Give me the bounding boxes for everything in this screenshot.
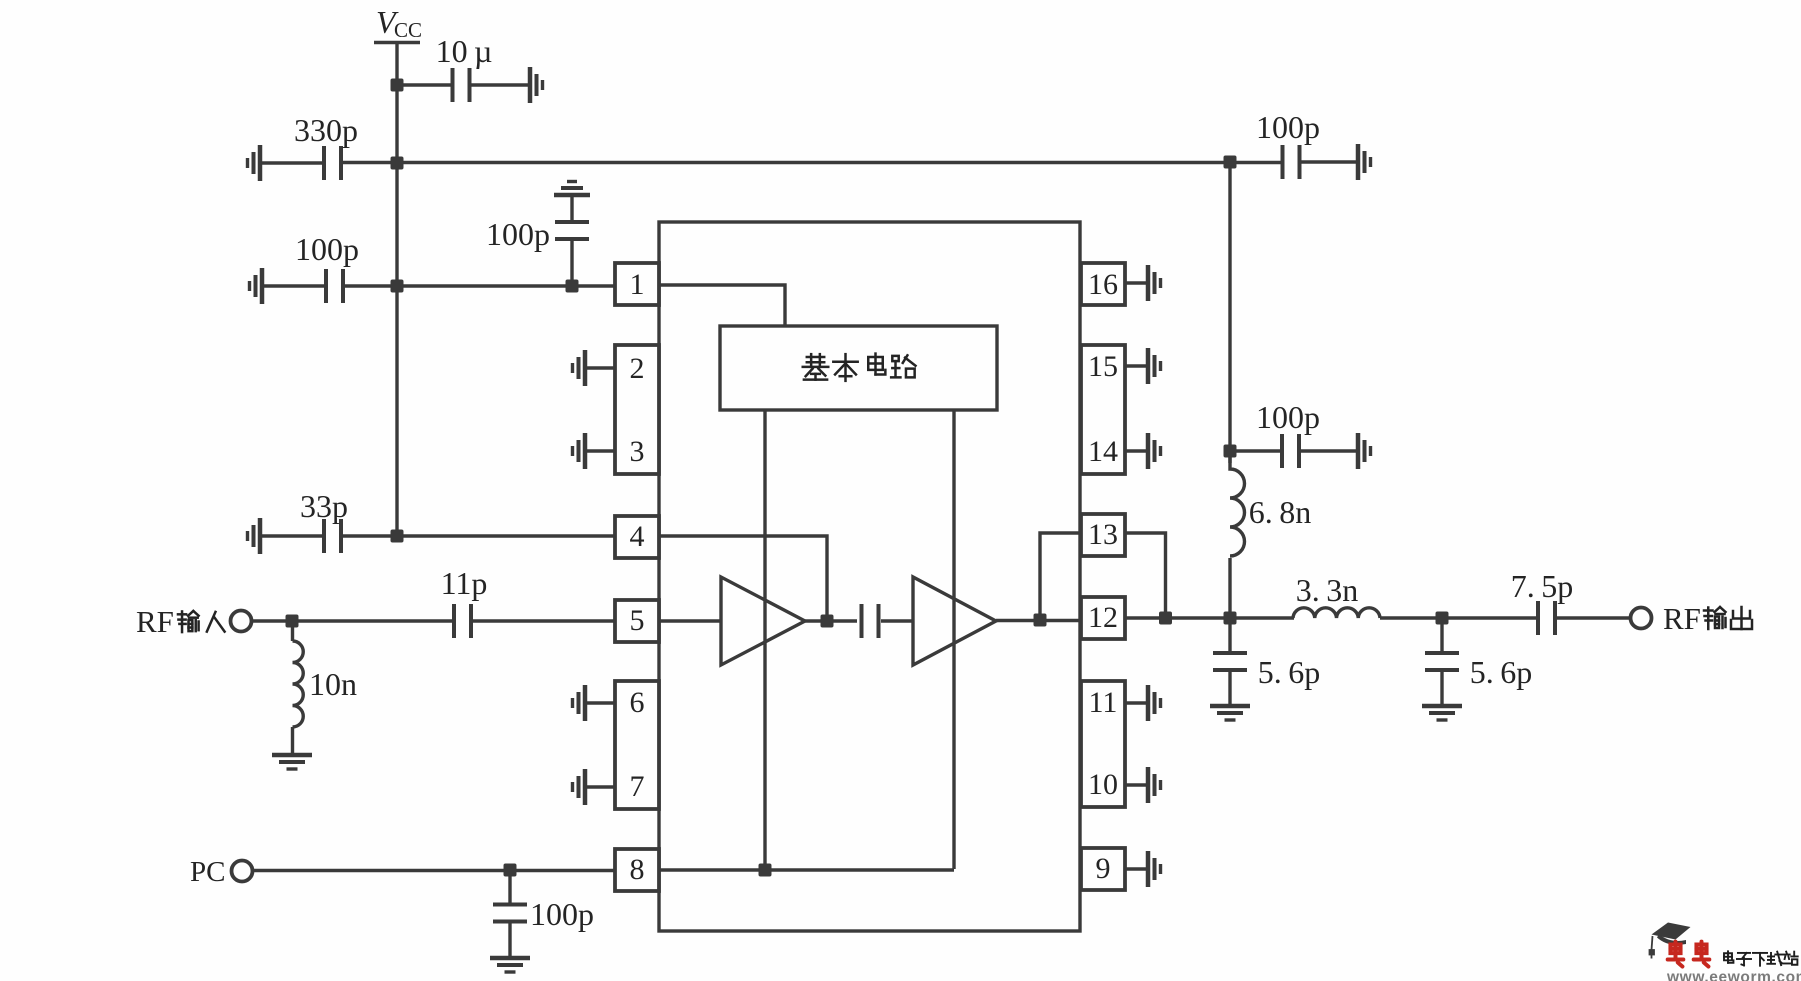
svg-text:11: 11 [1089,686,1118,719]
capacitor 100p row2 [324,269,345,303]
svg-text:10: 10 [1088,768,1118,801]
wire pin 13 jog to pin 12 net [1125,533,1166,618]
wire pin 9 to ground [1125,867,1147,870]
wire ground to pin 3 [585,449,616,452]
capacitor 100p mid right [1280,434,1301,468]
node 100p/VCC junction [391,280,404,293]
watermark site name characters [1724,951,1798,965]
svg-text:1: 1 [630,268,645,301]
wire C 100p vertical to ground [570,196,573,220]
node pin8/left leg junction [759,864,772,877]
wire basic circuit right leg [952,410,955,869]
svg-text:15: 15 [1088,350,1118,383]
wire C 11p to pin 5 [473,619,616,622]
capacitor 11p [452,604,473,638]
pin 6-7 box [615,681,659,809]
wire vertical rail x1230 [1228,162,1231,463]
wire 33p to pin 4 [343,534,616,537]
pin 15-14 box [1081,345,1125,474]
svg-text:RF: RF [1663,601,1701,636]
wire C 100p bottom to ground [508,923,511,956]
wire junction to C 100p vertical [570,241,573,286]
pin 1 box [615,263,659,305]
node 330p net / 100p top right junction [1224,156,1237,169]
wire pin 12 output row [1125,616,1294,619]
svg-text:330p: 330p [294,112,358,148]
node rail / 100p mid junction [1224,445,1237,458]
wire pin 10 to ground [1125,783,1147,786]
ground left of pin 6 [573,685,586,721]
capacitor 5.6p second [1425,651,1459,672]
capacitor 330p [322,146,343,180]
node pin1 bypass junction [566,280,579,293]
svg-text:16: 16 [1088,268,1118,301]
svg-text:12: 12 [1088,601,1118,634]
wire C 7.5p to RF output [1557,616,1630,619]
wire C 5.6p second to ground [1440,672,1443,704]
wire ground to pin 7 [585,785,616,788]
watermark graduation cap brim [1657,934,1686,945]
svg-text:13: 13 [1088,518,1118,551]
capacitor 100p top right [1281,145,1302,179]
pin 8 box [615,849,659,891]
node amp1 output / pin 4 junction [821,615,834,628]
svg-text:100p: 100p [295,231,359,267]
svg-text:RF: RF [136,604,174,639]
svg-text:6. 8n: 6. 8n [1249,494,1311,530]
wire 100p mid to ground [1301,449,1356,452]
ground right of pin 14 [1148,433,1161,469]
pin 16 box [1081,263,1125,305]
wire 6.8n to pin12 node [1228,558,1231,618]
svg-text:7. 5p: 7. 5p [1511,568,1573,604]
wire junction down to L 10n [291,621,294,641]
wire RF input to C 11p [251,619,452,622]
node RF input / 10n junction [286,615,299,628]
capacitor coupling between amps [860,604,881,638]
svg-text:3: 3 [630,435,645,468]
svg-text:11p: 11p [441,565,488,601]
label RF input [136,604,225,639]
ground left of pin 7 [573,769,586,805]
svg-text:100p: 100p [1256,109,1320,145]
power VCC bar [374,41,420,44]
wire ground to C 33p [260,534,322,537]
ground right of 100p mid [1358,433,1371,469]
terminal RF output [1631,608,1652,629]
ground right of pin 10 [1148,767,1161,803]
svg-text:33p: 33p [300,488,348,524]
watermark chongchong red characters [1668,942,1710,967]
node VCC/10u junction [391,79,404,92]
wire pin 15 to ground [1125,364,1147,367]
ground left of pin 2 [573,350,586,386]
pin 5 box [615,600,659,642]
capacitor 10u [451,68,472,102]
op-amp A1 triangle [721,577,805,665]
ground below 5.6p second [1422,706,1462,720]
wire 3.3n to C 7.5p [1380,616,1536,619]
svg-text:4: 4 [630,520,645,553]
wire pin 4 into IC [659,536,827,621]
node 33p/VCC junction [391,530,404,543]
wire pin 5 to amp 1 [659,619,720,622]
inductor 3.3n [1293,608,1380,618]
wire VCC vertical rail x397 [395,42,398,536]
capacitor 100p bottom [493,903,527,924]
wire pin 14 to ground [1125,449,1147,452]
wire junction down to C 100p bottom [508,870,511,904]
label RF output [1663,601,1752,636]
wire ground to pin 6 [585,701,616,704]
wire amp 1 output [805,619,857,622]
wire VCC to C 10u [397,83,451,86]
svg-text:100p: 100p [1256,399,1320,435]
svg-text:www.eeworm.com: www.eeworm.com [1666,969,1801,981]
node amp2 output junction [1034,614,1047,627]
ground right of pin 16 [1148,265,1161,301]
svg-text:14: 14 [1088,435,1118,468]
svg-text:8: 8 [630,853,645,886]
wire pin 11 to ground [1125,701,1147,704]
node PC / 100p junction [504,864,517,877]
ground right of 10u [530,67,543,103]
svg-text:10n: 10n [309,666,357,702]
wire junction to C 100p mid [1230,449,1280,452]
wire PC to pin 8 [252,869,616,872]
node 330p/VCC junction [391,157,404,170]
ground below 10n [272,755,312,769]
wire coupling cap to amp 2 [881,619,912,622]
svg-text:2: 2 [630,352,645,385]
ground below 5.6p first [1210,706,1250,720]
op-amp IC U1 outline [659,222,1080,931]
wire pin 8 into IC [659,868,954,871]
wire 100p row2 to pin 1 [345,284,616,287]
wire 330p net long top wire to right 100p [343,161,1281,164]
wire amp 2 output to pin 12 [996,619,1081,622]
terminal PC [232,861,253,882]
wire basic circuit left leg [763,410,766,870]
wire C 10u to ground [471,83,528,86]
ground right of pin 9 [1148,851,1161,887]
pin 13 box [1081,514,1125,556]
pin 4 box [615,516,659,558]
pin 12 box [1081,597,1125,639]
ground left of pin 3 [573,433,586,469]
capacitor 100p vertical at pin1 [555,220,589,241]
capacitor 7.5p [1536,601,1557,635]
svg-text:PC: PC [190,856,225,888]
wire 100p top right to ground [1301,160,1356,163]
block basic circuit box [720,326,997,410]
svg-text:9: 9 [1096,852,1111,885]
svg-text:5: 5 [630,604,645,637]
wire junction down to C 5.6p first [1228,618,1231,653]
power VCC label [376,4,422,42]
inductor 10n [293,641,304,727]
pin 9 box [1081,848,1125,890]
ground above 100p vertical [554,182,590,196]
ground below 100p bottom [490,958,530,972]
label basic circuit (Chinese) [803,354,916,381]
svg-text:5. 6p: 5. 6p [1258,654,1320,690]
capacitor 33p [322,519,343,553]
watermark graduation cap board [1652,923,1691,940]
inductor 6.8n [1230,451,1245,556]
svg-text:5. 6p: 5. 6p [1470,654,1532,690]
svg-text:100p: 100p [486,216,550,252]
wire junction up to pin 13 inside IC [1040,533,1081,620]
node 6.8n / 5.6p junction [1224,612,1237,625]
wire ground to C 100p row2 [262,284,324,287]
svg-text:10 µ: 10 µ [436,33,493,69]
op-amp A2 triangle [913,577,996,665]
svg-text:CC: CC [394,18,422,42]
svg-text:3. 3n: 3. 3n [1296,572,1358,608]
wire ground to C 330p [260,161,322,164]
wire C 5.6p first to ground [1228,672,1231,704]
ground left of 330p [248,145,261,181]
ground left of 33p [248,518,261,554]
svg-text:7: 7 [630,770,645,803]
wire ground to pin 2 [585,366,616,369]
ground left of 100p row2 [250,268,263,304]
capacitor 5.6p first [1213,651,1247,672]
wire pin 1 into IC [659,285,785,327]
node 5.6p second junction [1436,612,1449,625]
watermark cap tassel [1650,936,1655,959]
pin 11-10 box [1081,681,1125,807]
wire junction down to C 5.6p second [1440,618,1443,653]
ground right of pin 11 [1148,685,1161,721]
ground right of pin 15 [1148,348,1161,384]
wire L 10n to ground [291,727,294,753]
terminal RF input [231,611,252,632]
pin 2-3 box [615,345,659,474]
node pin13 jog junction [1159,612,1172,625]
svg-text:100p: 100p [530,896,594,932]
ground right of 100p top [1358,144,1371,180]
svg-text:6: 6 [630,686,645,719]
wire pin 16 to ground [1125,281,1147,284]
